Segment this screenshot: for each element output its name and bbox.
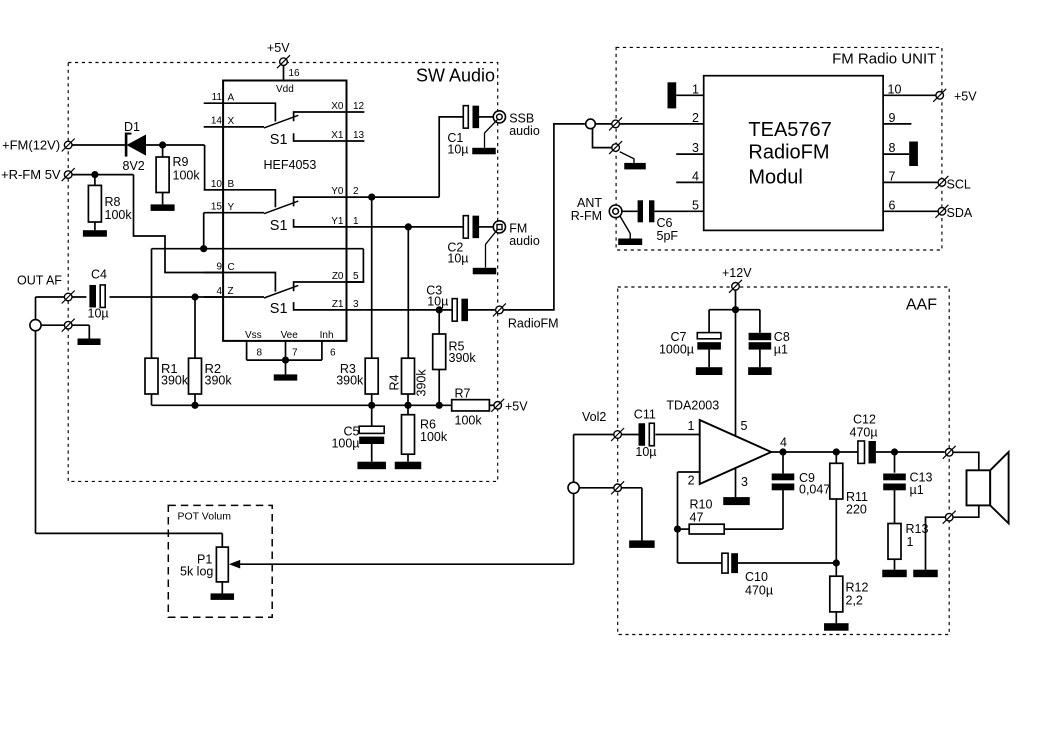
svg-text:1: 1 — [907, 535, 914, 549]
svg-text:SCL: SCL — [947, 177, 971, 191]
svg-text:47: 47 — [690, 511, 704, 525]
svg-text:10µ: 10µ — [88, 307, 109, 321]
svg-text:13: 13 — [353, 130, 365, 141]
svg-text:+5V: +5V — [267, 41, 290, 55]
svg-text:POT Volum: POT Volum — [178, 511, 232, 523]
svg-text:Vee: Vee — [281, 330, 299, 341]
svg-text:10µ: 10µ — [635, 445, 656, 459]
svg-text:2: 2 — [688, 474, 695, 488]
svg-text:+R-FM 5V: +R-FM 5V — [1, 167, 61, 182]
svg-text:15: 15 — [211, 202, 223, 213]
svg-text:X1: X1 — [331, 130, 344, 141]
svg-text:470µ: 470µ — [850, 426, 878, 440]
svg-text:+5V: +5V — [505, 400, 528, 414]
svg-text:10: 10 — [211, 179, 223, 190]
svg-text:4: 4 — [216, 286, 222, 297]
svg-text:390k: 390k — [449, 351, 477, 365]
svg-text:C11: C11 — [634, 408, 656, 422]
svg-text:8V2: 8V2 — [123, 159, 145, 173]
svg-text:1: 1 — [688, 419, 695, 433]
svg-text:Y: Y — [228, 202, 235, 213]
svg-text:S1: S1 — [270, 301, 288, 317]
svg-text:Y0: Y0 — [331, 186, 344, 197]
svg-text:TDA2003: TDA2003 — [666, 399, 719, 413]
svg-text:audio: audio — [509, 234, 540, 248]
svg-text:8: 8 — [257, 347, 263, 358]
svg-text:S1: S1 — [270, 218, 288, 234]
svg-text:8: 8 — [889, 141, 896, 155]
svg-text:+FM(12V): +FM(12V) — [2, 138, 60, 153]
svg-text:R4: R4 — [388, 374, 402, 390]
svg-text:100k: 100k — [173, 169, 201, 183]
svg-text:1: 1 — [353, 216, 359, 227]
svg-text:390k: 390k — [336, 374, 364, 388]
svg-text:Vdd: Vdd — [276, 84, 294, 95]
svg-text:100µ: 100µ — [331, 437, 359, 451]
svg-text:RadioFM: RadioFM — [508, 317, 559, 331]
svg-text:100k: 100k — [105, 208, 133, 222]
svg-text:5: 5 — [353, 271, 359, 282]
svg-text:µ1: µ1 — [774, 343, 788, 357]
svg-text:R12: R12 — [846, 581, 869, 595]
svg-text:14: 14 — [211, 116, 223, 127]
svg-text:11: 11 — [212, 92, 223, 103]
svg-text:3: 3 — [741, 475, 748, 489]
svg-text:4: 4 — [780, 436, 787, 450]
svg-text:2,2: 2,2 — [846, 594, 863, 608]
svg-text:3: 3 — [692, 141, 699, 155]
svg-text:5: 5 — [741, 419, 748, 433]
svg-text:A: A — [228, 93, 235, 104]
svg-text:390k: 390k — [415, 369, 429, 397]
svg-text:10µ: 10µ — [427, 295, 448, 309]
svg-text:10: 10 — [888, 82, 902, 96]
svg-text:C10: C10 — [745, 570, 768, 584]
svg-text:6: 6 — [330, 347, 336, 358]
svg-text:C4: C4 — [91, 268, 107, 282]
svg-text:12: 12 — [353, 101, 365, 112]
svg-text:5k log: 5k log — [180, 565, 213, 579]
svg-text:C12: C12 — [853, 413, 876, 427]
svg-text:R7: R7 — [455, 387, 471, 401]
svg-text:390k: 390k — [161, 374, 189, 388]
svg-text:RadioFM: RadioFM — [748, 142, 829, 164]
svg-text:R9: R9 — [173, 155, 189, 169]
svg-text:HEF4053: HEF4053 — [264, 158, 317, 172]
svg-text:C6: C6 — [657, 216, 673, 230]
svg-text:SDA: SDA — [947, 206, 973, 220]
svg-text:OUT AF: OUT AF — [17, 274, 62, 288]
svg-text:2: 2 — [353, 186, 359, 197]
svg-text:6: 6 — [889, 198, 896, 212]
svg-text:3: 3 — [353, 299, 359, 310]
svg-text:audio: audio — [509, 124, 540, 138]
svg-text:100k: 100k — [420, 430, 448, 444]
svg-text:X0: X0 — [331, 101, 344, 112]
svg-text:Z0: Z0 — [332, 271, 344, 282]
svg-text:C: C — [228, 262, 235, 273]
svg-text:Vss: Vss — [245, 330, 262, 341]
svg-text:4: 4 — [692, 169, 699, 183]
svg-text:R10: R10 — [690, 498, 713, 512]
svg-text:7: 7 — [292, 347, 298, 358]
svg-text:Z1: Z1 — [332, 299, 344, 310]
svg-text:S1: S1 — [270, 132, 288, 148]
svg-text:µ1: µ1 — [910, 483, 924, 497]
svg-text:5: 5 — [692, 198, 699, 212]
svg-text:Inh: Inh — [320, 330, 334, 341]
svg-text:D1: D1 — [124, 120, 140, 134]
svg-text:Y1: Y1 — [331, 216, 344, 227]
svg-text:B: B — [228, 179, 235, 190]
svg-text:TEA5767: TEA5767 — [748, 119, 831, 141]
svg-text:7: 7 — [889, 169, 896, 183]
svg-text:2: 2 — [692, 111, 699, 125]
svg-text:9: 9 — [216, 262, 222, 273]
svg-text:390k: 390k — [205, 374, 233, 388]
svg-text:10µ: 10µ — [447, 252, 468, 266]
svg-text:X: X — [228, 116, 235, 127]
svg-text:FM Radio UNIT: FM Radio UNIT — [832, 50, 936, 67]
svg-text:Z: Z — [228, 286, 234, 297]
svg-text:5pF: 5pF — [657, 229, 679, 243]
svg-text:0,047: 0,047 — [799, 483, 830, 497]
svg-text:R-FM: R-FM — [571, 209, 602, 223]
svg-text:1: 1 — [692, 82, 699, 96]
svg-text:ANT: ANT — [577, 196, 602, 210]
svg-text:+5V: +5V — [954, 89, 977, 103]
svg-text:1000µ: 1000µ — [659, 343, 694, 357]
svg-text:220: 220 — [846, 503, 867, 517]
svg-text:100k: 100k — [455, 414, 483, 428]
svg-text:Modul: Modul — [748, 166, 802, 188]
svg-text:AAF: AAF — [906, 296, 937, 313]
svg-text:SW Audio: SW Audio — [416, 66, 495, 86]
svg-text:9: 9 — [889, 111, 896, 125]
svg-text:470µ: 470µ — [745, 584, 773, 598]
svg-text:Vol2: Vol2 — [582, 410, 606, 424]
svg-text:10µ: 10µ — [447, 143, 468, 157]
svg-text:+12V: +12V — [722, 266, 752, 280]
svg-text:16: 16 — [289, 68, 301, 79]
svg-text:R8: R8 — [105, 195, 121, 209]
